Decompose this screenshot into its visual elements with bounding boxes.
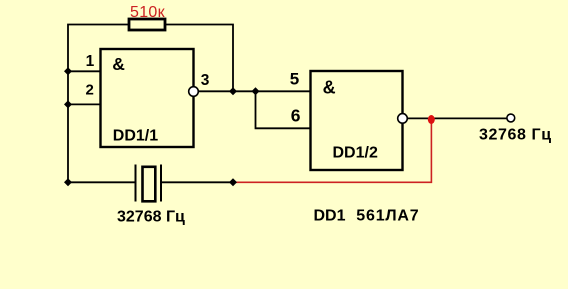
svg-text:DD1/1: DD1/1 [113,127,158,144]
svg-text:&: & [323,78,336,98]
svg-text:DD1: DD1 [314,208,346,225]
svg-text:32768 Гц: 32768 Гц [479,126,552,143]
svg-text:2: 2 [86,81,94,98]
svg-text:32768 Гц: 32768 Гц [117,209,185,226]
svg-text:6: 6 [291,105,301,125]
svg-text:&: & [112,54,125,74]
svg-text:3: 3 [201,72,210,89]
svg-text:510к: 510к [130,4,166,21]
svg-text:DD1/2: DD1/2 [333,145,378,162]
svg-text:561ЛА7: 561ЛА7 [356,208,419,225]
svg-text:1: 1 [86,53,95,70]
svg-text:5: 5 [290,69,299,88]
